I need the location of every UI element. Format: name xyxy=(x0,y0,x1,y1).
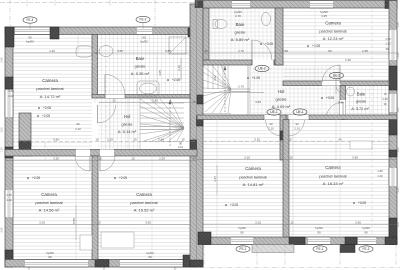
column right wall a xyxy=(389,66,397,90)
svg-text:1.00: 1.00 xyxy=(396,222,400,228)
column party wall b xyxy=(190,140,197,150)
column left mid xyxy=(5,77,13,89)
stub wall between UE-1 doors xyxy=(280,115,286,160)
door UE-1 right leaf xyxy=(287,120,289,137)
parquet floor camera 14.72 top-left room xyxy=(13,37,92,39)
dim string left unit bottom xyxy=(13,224,190,226)
guide line left unit rooms vertical a xyxy=(44,142,46,161)
svg-text:3.85: 3.85 xyxy=(165,49,171,53)
gresie floor baie 9.35 xyxy=(98,38,191,40)
svg-text:3.85: 3.85 xyxy=(152,99,158,103)
svg-text:90: 90 xyxy=(148,255,152,259)
level marker +3.05 xyxy=(225,204,227,206)
svg-text:FE-1: FE-1 xyxy=(317,247,324,251)
door to camera 14.56 xyxy=(89,156,91,171)
window left wall lower xyxy=(5,190,13,217)
svg-text:UE-1: UE-1 xyxy=(296,110,303,114)
svg-text:15: 15 xyxy=(131,157,135,161)
svg-text:2.70: 2.70 xyxy=(235,14,241,18)
dim string left unit middle upper xyxy=(5,141,197,143)
flue pier dark column xyxy=(19,141,31,156)
top exterior wall left unit xyxy=(5,27,197,35)
extension dash line x106 xyxy=(105,60,107,148)
vertical dim camera 14.56 xyxy=(75,205,77,240)
dim string left unit middle lower xyxy=(5,160,197,162)
wall under baie 5.89 xyxy=(203,60,252,65)
svg-text:2.48: 2.48 xyxy=(338,101,344,105)
window FE-2 xyxy=(137,27,152,35)
svg-text:30: 30 xyxy=(204,49,208,53)
window right wall low xyxy=(389,168,397,186)
level marker +2.06 xyxy=(38,107,40,109)
svg-text:5.58: 5.58 xyxy=(282,49,288,53)
svg-text:70: 70 xyxy=(383,92,387,96)
party wall between units xyxy=(190,4,203,267)
svg-text:+3.05: +3.05 xyxy=(312,44,320,48)
dresser camera 14.72 xyxy=(76,46,92,57)
door leaf baie 5.89 xyxy=(251,40,253,60)
guide line camera 15.52 vertical xyxy=(151,156,153,259)
gresie floor baie 5.89 xyxy=(203,11,275,13)
svg-text:1.20: 1.20 xyxy=(8,94,14,98)
column party wall a xyxy=(197,116,204,126)
guide line bottom-left room vertical xyxy=(75,160,77,259)
column left top xyxy=(5,27,14,47)
svg-text:Baie: Baie xyxy=(236,22,245,27)
svg-text:2.43: 2.43 xyxy=(396,107,400,113)
svg-text:2.95: 2.95 xyxy=(345,58,351,62)
window top-right 1 xyxy=(232,1,250,9)
tag UE-2 left xyxy=(255,65,269,71)
svg-text:1.40: 1.40 xyxy=(6,193,12,197)
svg-text:UE-1: UE-1 xyxy=(270,110,277,114)
svg-text:parchet laminat: parchet laminat xyxy=(36,86,64,91)
svg-text:4.35: 4.35 xyxy=(321,14,327,18)
svg-text:15: 15 xyxy=(289,156,293,160)
svg-text:FE-1: FE-1 xyxy=(240,247,247,251)
svg-text:hp/90: hp/90 xyxy=(140,40,148,44)
staircase left unit winder treads xyxy=(140,102,184,104)
svg-text:parchet laminat: parchet laminat xyxy=(319,29,347,34)
svg-text:1.80: 1.80 xyxy=(377,169,383,173)
svg-text:+3.05: +3.05 xyxy=(358,201,366,205)
window FE-1 left opening xyxy=(231,237,253,245)
column left at mid-wall xyxy=(5,147,13,158)
window right wall mid xyxy=(389,94,397,112)
dim string right unit upper xyxy=(203,52,397,54)
svg-text:A: 14.72 m²: A: 14.72 m² xyxy=(40,94,61,99)
level marker +2.05 xyxy=(27,177,29,179)
level marker +2.05 xyxy=(37,115,39,117)
svg-text:1.20: 1.20 xyxy=(377,174,383,178)
svg-text:UE-2: UE-2 xyxy=(258,67,265,71)
wall under baie 9.35 xyxy=(92,95,190,99)
shower baie 9.35 xyxy=(169,37,186,54)
parquet floor camera 12.24 xyxy=(283,11,389,13)
svg-text:hp/90: hp/90 xyxy=(362,226,370,230)
svg-text:4.20: 4.20 xyxy=(396,187,400,193)
svg-text:Camera: Camera xyxy=(325,165,341,170)
wc baie 5.89 xyxy=(215,20,227,29)
dim string right unit bottom xyxy=(203,224,397,226)
svg-text:7.20: 7.20 xyxy=(0,147,4,153)
tag FE-1 a xyxy=(236,246,250,252)
mid wall left unit xyxy=(5,150,197,157)
sink baie 5.89 xyxy=(262,13,271,26)
column party wall top xyxy=(195,1,203,8)
dim string right unit below mid xyxy=(197,159,397,161)
dim line under right stair xyxy=(204,92,264,94)
level marker +3.05 xyxy=(353,202,355,204)
svg-text:1.20: 1.20 xyxy=(49,49,55,53)
svg-text:UE-2: UE-2 xyxy=(333,74,340,78)
window FE-3 opening xyxy=(358,237,376,245)
tag UE-1 right xyxy=(293,109,307,115)
leader FE-1 b xyxy=(318,245,320,247)
svg-text:1.20: 1.20 xyxy=(396,147,400,153)
svg-text:A: 14.56 m²: A: 14.56 m² xyxy=(39,208,60,213)
svg-text:1.20: 1.20 xyxy=(6,198,12,202)
wall baie 3.72 left xyxy=(340,86,346,120)
extension line camera 14.72 b xyxy=(94,35,96,104)
svg-text:2.50: 2.50 xyxy=(159,157,165,161)
grid dash line bottom axis xyxy=(200,267,400,269)
svg-text:Camera: Camera xyxy=(41,192,57,197)
sink baie 9.35 xyxy=(99,46,113,57)
svg-text:FE-2: FE-2 xyxy=(140,18,147,22)
stair arrow right unit xyxy=(224,66,226,112)
wall baie 5.89 right / camera 12.24 left xyxy=(275,8,283,65)
door arc baie 3.72 xyxy=(342,102,344,119)
svg-text:90: 90 xyxy=(48,255,52,259)
tag UE-1 left xyxy=(267,109,281,115)
wall between bottom-left rooms xyxy=(92,156,98,260)
parquet floor camera 15.52 xyxy=(98,159,190,161)
svg-text:A: 18.33 m²: A: 18.33 m² xyxy=(323,181,344,186)
svg-text:2.40: 2.40 xyxy=(396,52,400,58)
svg-text:3.90: 3.90 xyxy=(355,221,361,225)
svg-text:15: 15 xyxy=(95,138,99,142)
svg-text:gresie: gresie xyxy=(235,30,247,35)
door arc baie 5.89 xyxy=(252,40,272,60)
svg-text:Hol: Hol xyxy=(278,89,285,94)
svg-text:parchet laminat: parchet laminat xyxy=(35,200,63,205)
svg-text:+3.05: +3.05 xyxy=(230,203,238,207)
top exterior wall right unit xyxy=(203,1,397,9)
gresie floor hol 4.09 xyxy=(250,68,340,70)
dim string left unit upper xyxy=(13,52,190,54)
extension line camera 14.72 a xyxy=(77,35,79,54)
svg-text:2.40: 2.40 xyxy=(0,57,4,63)
gresie floor baie 3.72 xyxy=(346,89,390,91)
svg-text:3.20: 3.20 xyxy=(53,138,59,142)
column top wall xyxy=(50,27,59,39)
svg-text:Hol: Hol xyxy=(124,114,131,119)
column top-right wall end xyxy=(385,1,397,9)
svg-text:A: 5.89 m²: A: 5.89 m² xyxy=(231,37,250,42)
svg-text:3.65: 3.65 xyxy=(117,49,123,53)
svg-text:A: 14.81 m²: A: 14.81 m² xyxy=(243,182,264,187)
svg-text:A: 3.72 m²: A: 3.72 m² xyxy=(351,107,369,111)
tag FE-1 b xyxy=(313,246,327,252)
door camera 14.72 to hol xyxy=(92,105,98,123)
column top wall right end xyxy=(188,28,197,37)
svg-text:40: 40 xyxy=(385,47,389,51)
level marker +3.05 xyxy=(260,43,262,45)
svg-text:90: 90 xyxy=(295,122,299,126)
extension dim line left unit x157 xyxy=(156,55,158,94)
level marker +1.05 xyxy=(247,77,249,79)
svg-text:1.40: 1.40 xyxy=(8,89,14,93)
svg-text:gresie: gresie xyxy=(122,122,134,127)
leader FE-2 xyxy=(142,23,144,29)
window bottom-left 2 xyxy=(120,260,183,268)
svg-text:gresie: gresie xyxy=(276,97,288,102)
svg-text:90: 90 xyxy=(269,122,273,126)
column bottom-right a xyxy=(198,232,211,245)
svg-text:3.90: 3.90 xyxy=(352,156,358,160)
svg-text:3.20: 3.20 xyxy=(39,221,45,225)
staircase right unit winder treads xyxy=(207,65,209,89)
wall between camera 14.72 and baie xyxy=(92,35,98,98)
grid dash line top left xyxy=(9,0,11,27)
svg-text:+2.05: +2.05 xyxy=(32,176,40,180)
window bottom-left 1 xyxy=(25,260,88,268)
svg-text:90: 90 xyxy=(364,231,368,235)
svg-text:3.05: 3.05 xyxy=(158,70,162,76)
svg-text:5.55: 5.55 xyxy=(72,218,76,224)
svg-text:hp/90: hp/90 xyxy=(315,226,323,230)
window right wall top xyxy=(389,30,397,60)
svg-text:+2.06: +2.06 xyxy=(43,106,51,110)
svg-text:+1.05: +1.05 xyxy=(252,76,260,80)
svg-text:A: 9.35 m²: A: 9.35 m² xyxy=(131,71,150,76)
bottom exterior wall left unit xyxy=(5,260,197,268)
porch slab below bottom wall xyxy=(252,245,294,253)
guide line right unit vertical b xyxy=(339,120,341,238)
dim string right unit mid xyxy=(203,141,397,143)
window left wall xyxy=(5,90,13,117)
svg-text:+3.05: +3.05 xyxy=(265,42,273,46)
grid dash line right unit vertical xyxy=(371,8,373,237)
svg-text:3.15: 3.15 xyxy=(244,156,250,160)
tag FE-3 xyxy=(359,246,373,252)
door leaf camera 12.24 into hol xyxy=(335,79,337,94)
column right wall c xyxy=(389,218,397,244)
svg-text:A: 4.09 m²: A: 4.09 m² xyxy=(272,104,291,109)
svg-text:3.15: 3.15 xyxy=(254,138,260,142)
svg-text:90: 90 xyxy=(28,36,32,40)
svg-text:2.40: 2.40 xyxy=(158,138,164,142)
svg-text:30: 30 xyxy=(383,102,387,106)
guide line camera 12.24 horizontal dim xyxy=(283,61,389,63)
bottom exterior wall right unit xyxy=(203,237,397,245)
tag FE-4 xyxy=(23,17,37,23)
window top-right 2 xyxy=(310,1,333,9)
svg-text:90: 90 xyxy=(317,231,321,235)
column right wall b xyxy=(389,119,397,135)
column left bottom xyxy=(5,250,13,267)
svg-text:Camera: Camera xyxy=(42,78,58,83)
svg-text:1.20: 1.20 xyxy=(385,42,391,46)
tag FE-2 xyxy=(136,16,150,22)
svg-text:2.10: 2.10 xyxy=(268,127,274,131)
right exterior wall xyxy=(389,1,397,245)
leader FE-4 xyxy=(29,24,31,30)
guide line hol vertical xyxy=(109,98,111,150)
parquet floor camera 18.33 xyxy=(289,122,389,124)
svg-text:+3.05: +3.05 xyxy=(326,96,334,100)
door arc baie 9.35 xyxy=(104,75,106,95)
mid wall right unit xyxy=(197,115,397,120)
svg-text:A: 15.52 m²: A: 15.52 m² xyxy=(134,208,155,213)
svg-text:15: 15 xyxy=(97,221,101,225)
flue pier in camera 14.72 xyxy=(19,113,31,146)
level marker +2.05 xyxy=(114,177,116,179)
hol stair separation line xyxy=(249,63,251,115)
svg-text:30: 30 xyxy=(192,138,196,142)
column party wall stair side xyxy=(197,95,203,104)
svg-text:2.10: 2.10 xyxy=(294,127,300,131)
svg-text:FE-3: FE-3 xyxy=(363,247,370,251)
level marker +3.05 xyxy=(307,45,309,47)
svg-text:hp/90: hp/90 xyxy=(26,40,34,44)
grid axis dashed line top xyxy=(0,2,197,4)
level marker +3.05 xyxy=(321,97,323,99)
column bottom-left wall mid xyxy=(95,260,109,268)
column bottom-right b xyxy=(289,237,305,245)
baie 5.89 left wall strip xyxy=(203,8,209,60)
leader FE-3 xyxy=(366,245,368,247)
guide line left camera horizontal xyxy=(13,61,99,63)
tag UE-2 right xyxy=(330,72,344,78)
svg-text:4.27: 4.27 xyxy=(213,176,217,182)
column bottom-left wall right xyxy=(183,255,197,267)
svg-text:A: 12.24 m²: A: 12.24 m² xyxy=(323,36,344,41)
bathtub baie 9.35 xyxy=(137,81,159,96)
svg-text:Camera: Camera xyxy=(136,192,152,197)
door arc camera 12.24 xyxy=(339,65,341,83)
svg-text:Baie: Baie xyxy=(357,92,366,97)
door to camera 15.52 xyxy=(99,156,101,171)
svg-text:gresie: gresie xyxy=(135,64,147,69)
svg-text:parchet laminat: parchet laminat xyxy=(130,200,158,205)
bottom edge tick marks left unit xyxy=(28,268,30,270)
svg-text:1.50: 1.50 xyxy=(385,37,391,41)
svg-text:3.60: 3.60 xyxy=(145,221,151,225)
svg-text:30: 30 xyxy=(192,157,196,161)
svg-text:2.95: 2.95 xyxy=(362,49,368,53)
vertical dim camera 14.81 xyxy=(216,165,218,195)
gresie floor hol 5.14 xyxy=(98,101,141,103)
svg-text:2.70: 2.70 xyxy=(238,85,244,89)
dark block below bottom wall xyxy=(340,245,355,253)
svg-text:Camera: Camera xyxy=(325,21,341,26)
svg-text:90: 90 xyxy=(179,142,183,146)
svg-text:90: 90 xyxy=(240,231,244,235)
extension line right unit xyxy=(292,120,294,238)
parquet floor camera 14.56 bottom-left room xyxy=(13,159,92,161)
svg-text:15: 15 xyxy=(290,221,294,225)
svg-text:15: 15 xyxy=(98,157,102,161)
svg-text:15: 15 xyxy=(133,138,137,142)
svg-text:2.10: 2.10 xyxy=(178,145,184,149)
level marker +2.05 xyxy=(167,79,169,81)
window FE-4 xyxy=(15,27,50,35)
svg-text:90: 90 xyxy=(142,36,146,40)
svg-text:A: 5.14 m²: A: 5.14 m² xyxy=(118,129,137,134)
svg-text:4.59: 4.59 xyxy=(255,100,261,104)
svg-text:Baie: Baie xyxy=(136,56,145,61)
svg-text:2.10: 2.10 xyxy=(75,127,81,131)
svg-text:15: 15 xyxy=(288,138,292,142)
svg-text:15: 15 xyxy=(112,99,116,103)
stair arrow left unit xyxy=(169,100,171,146)
grid dash lines bottom right xyxy=(203,245,205,267)
svg-text:2.42: 2.42 xyxy=(213,75,217,81)
column party wall bottom xyxy=(190,260,203,267)
svg-text:gresie: gresie xyxy=(356,100,366,104)
svg-text:45: 45 xyxy=(192,100,196,104)
svg-text:hp/90: hp/90 xyxy=(238,226,246,230)
svg-text:+2.05: +2.05 xyxy=(119,176,127,180)
left exterior wall xyxy=(5,27,13,267)
svg-text:3.20: 3.20 xyxy=(53,157,59,161)
door UE-1 left leaf xyxy=(281,120,283,137)
grid axis tick dark top right of left unit xyxy=(196,0,198,6)
svg-text:1.00: 1.00 xyxy=(0,127,4,133)
svg-text:parchet laminat: parchet laminat xyxy=(319,174,347,179)
svg-text:FE-4: FE-4 xyxy=(27,18,34,22)
window FE-1 right opening xyxy=(308,237,330,245)
svg-text:2.70: 2.70 xyxy=(238,49,244,53)
wall under camera 12.24 xyxy=(283,81,389,86)
svg-text:parchet laminat: parchet laminat xyxy=(239,175,267,180)
vertical dim baie 9.35 xyxy=(180,58,182,80)
guide line camera 12.24 vertical xyxy=(314,8,316,81)
svg-text:2.40: 2.40 xyxy=(0,227,4,233)
svg-text:3.15: 3.15 xyxy=(255,221,261,225)
svg-text:Camera: Camera xyxy=(245,166,261,171)
svg-text:+2.05: +2.05 xyxy=(172,78,180,82)
column stub wall xyxy=(280,131,286,140)
parquet floor camera 14.81 xyxy=(203,122,283,124)
wall segment east of UE-2 door xyxy=(274,60,283,65)
column bottom-right c xyxy=(345,237,357,245)
svg-text:90: 90 xyxy=(76,122,80,126)
column right wall at mid-wall xyxy=(389,150,397,157)
svg-text:1.50: 1.50 xyxy=(396,22,400,28)
svg-text:1.20: 1.20 xyxy=(382,97,388,101)
column bottom-right corner xyxy=(385,237,397,245)
wc baie 3.72 xyxy=(347,87,355,96)
wall between bottom-right rooms xyxy=(283,120,289,238)
dim string baie bottom xyxy=(99,102,190,104)
svg-text:2.42: 2.42 xyxy=(177,65,181,71)
niche camera 18.33 xyxy=(350,141,372,149)
svg-text:80: 80 xyxy=(328,49,332,53)
leader FE-1 a xyxy=(241,245,243,247)
furniture camera 14.56 xyxy=(80,235,92,250)
furniture camera 15.52 xyxy=(101,232,134,248)
guide line right unit vertical a xyxy=(216,120,218,238)
svg-text:+2.05: +2.05 xyxy=(42,114,50,118)
